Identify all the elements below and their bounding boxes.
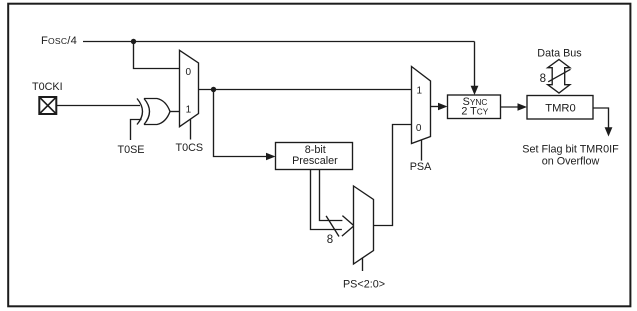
wire PS select bbox=[362, 258, 364, 272]
wire from junction to mux U1 input 0 bbox=[134, 42, 180, 69]
wire T0CKI to XOR gate bbox=[56, 105, 140, 107]
svg-text:1: 1 bbox=[417, 85, 423, 96]
wire PSA select bbox=[421, 140, 423, 161]
junction dot on Fosc/4 wire bbox=[131, 39, 136, 44]
svg-text:Prescaler: Prescaler bbox=[292, 155, 338, 167]
junction dot on mux U1 output bbox=[211, 87, 216, 92]
box TMR0 bbox=[527, 96, 593, 120]
svg-text:PS<2:0>: PS<2:0> bbox=[343, 279, 385, 291]
label Sync 2 Tcy bbox=[461, 96, 488, 118]
wire TMR0 to overflow flag bbox=[593, 108, 609, 129]
svg-text:8: 8 bbox=[327, 234, 333, 246]
wire Fosc/4 horizontal bbox=[83, 41, 475, 43]
xor-gate G1 bbox=[137, 99, 170, 125]
svg-text:0: 0 bbox=[416, 123, 422, 134]
arrowhead into Sync top bbox=[471, 86, 479, 95]
wire XOR output to mux U1 input 1 bbox=[170, 111, 180, 113]
arrowhead into Sync left bbox=[438, 103, 448, 111]
svg-text:T0CS: T0CS bbox=[176, 142, 204, 154]
wire T0CS select bbox=[190, 120, 192, 140]
svg-text:8: 8 bbox=[540, 73, 546, 85]
box Sync 2 Tcy bbox=[448, 95, 501, 119]
arrowhead into prescaler bbox=[266, 153, 276, 161]
svg-text:FOSC/4: FOSC/4 bbox=[41, 35, 77, 47]
wire Fosc/4 down into Sync top bbox=[474, 42, 476, 87]
svg-text:on Overflow: on Overflow bbox=[542, 156, 600, 168]
wire T0SE select to XOR gate bbox=[131, 120, 142, 141]
svg-text:T0SE: T0SE bbox=[118, 144, 145, 156]
wire mux U1 output to mux U2 input 1 bbox=[199, 89, 412, 91]
arrowhead into TMR0 bbox=[518, 103, 528, 111]
svg-text:TMR0: TMR0 bbox=[545, 102, 575, 114]
svg-text:Data Bus: Data Bus bbox=[537, 48, 582, 60]
svg-text:PSA: PSA bbox=[410, 161, 432, 173]
bus width slash bbox=[326, 216, 339, 237]
wire PS mux output up to mux U2 input 0 bbox=[374, 125, 412, 226]
wire junction down to prescaler bbox=[214, 90, 268, 157]
data bus double arrow bbox=[548, 60, 570, 94]
mux U2 (PSA mux) bbox=[412, 67, 431, 144]
wire mux U2 output to Sync bbox=[431, 106, 440, 108]
mux U1 (T0CS mux) bbox=[180, 50, 199, 126]
bus wire prescaler to PS mux (two parallel lines) bbox=[311, 170, 343, 230]
svg-text:2 TCY: 2 TCY bbox=[461, 106, 488, 118]
mux U3 (PS output mux) bbox=[354, 186, 374, 264]
box 8-bit Prescaler bbox=[276, 143, 353, 170]
svg-text:1: 1 bbox=[186, 105, 192, 116]
svg-text:0: 0 bbox=[186, 67, 192, 78]
svg-text:8-bit: 8-bit bbox=[305, 144, 326, 156]
open arrowhead into PS mux bbox=[342, 216, 354, 237]
wire Sync to TMR0 bbox=[501, 106, 519, 108]
data bus width slash bbox=[548, 69, 570, 82]
arrowhead overflow down bbox=[605, 127, 613, 136]
svg-text:T0CKI: T0CKI bbox=[32, 81, 63, 93]
svg-text:Set Flag bit TMR0IF: Set Flag bit TMR0IF bbox=[522, 144, 619, 156]
pin T0CKI bbox=[39, 97, 56, 114]
label 8-bit Prescaler bbox=[292, 144, 338, 167]
label Set Flag bit TMR0IF on Overflow bbox=[522, 144, 619, 168]
